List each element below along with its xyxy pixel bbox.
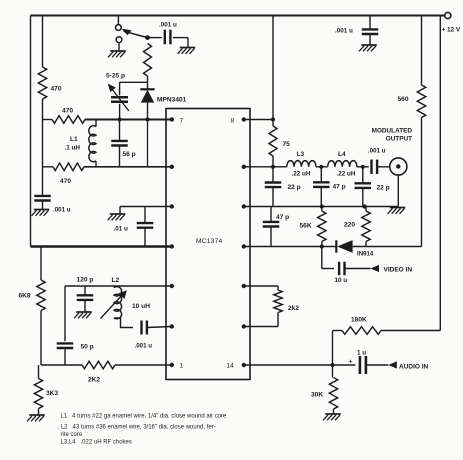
svg-text:+: + <box>349 359 353 366</box>
svg-text:2K2: 2K2 <box>88 377 100 384</box>
ground (top left cap) <box>178 48 196 54</box>
wire 180K right <box>381 330 440 332</box>
wire 120p/L2 top rail <box>65 285 172 287</box>
node audio junction <box>330 363 334 367</box>
node pin8/x273 junction <box>271 117 275 121</box>
resistor 560 <box>398 85 426 118</box>
svg-text:MPN3401: MPN3401 <box>157 97 187 104</box>
wire pin7 row left stub <box>43 119 53 121</box>
note L3L4 <box>61 440 132 446</box>
wire 470-chain mid <box>42 120 44 167</box>
wire pin1 rail left <box>41 364 65 366</box>
svg-text:+ 12 V: + 12 V <box>442 27 461 34</box>
capacitor .001u (L2 series) <box>135 321 172 350</box>
wire pin6 row left stub <box>43 166 54 168</box>
wire video drop <box>322 247 334 269</box>
diode MPN3401 (varactor) <box>140 82 186 119</box>
inductor L1 .1uH <box>65 120 97 167</box>
svg-text:MODULATED: MODULATED <box>372 128 413 135</box>
svg-text:.1 uH: .1 uH <box>65 145 81 152</box>
capacitor 10u (video coupling) <box>335 262 348 284</box>
resistor 470 (to pin 6) <box>53 163 84 185</box>
node IC right pin dots <box>242 117 246 367</box>
wire .01u ground stub <box>119 207 121 214</box>
ground (3K3) <box>27 415 45 421</box>
resistor 470 (osc divider top) <box>38 67 62 99</box>
svg-text:AUDIO IN: AUDIO IN <box>399 364 429 371</box>
resistor 30K <box>311 365 338 414</box>
ground (left .001u) <box>32 210 50 216</box>
node video junction <box>320 244 324 248</box>
wire cap-bottom rail <box>244 206 398 208</box>
wire diode to pin6 row <box>147 120 149 167</box>
resistor 75 <box>269 120 290 167</box>
svg-text:8: 8 <box>231 118 235 125</box>
resistor (osc feedback) <box>144 44 152 77</box>
capacitor 120p <box>77 277 94 312</box>
resistor 2K2 <box>82 361 115 383</box>
switch SPDT <box>116 25 148 43</box>
wire audio rail <box>244 364 356 366</box>
svg-text:10 uH: 10 uH <box>132 303 150 310</box>
capacitor 50p <box>57 286 94 365</box>
capacitor variable 5-25p <box>106 73 129 120</box>
node rail2 junction 56K <box>320 204 324 208</box>
wire switch junction to cap <box>148 37 163 39</box>
node junction varcap/pin7 <box>117 117 121 121</box>
svg-text:OUTPUT: OUTPUT <box>386 136 412 143</box>
capacitor 47p (tank mid) <box>313 167 346 207</box>
ground (supply bypass) <box>359 45 377 51</box>
svg-text:.001 u: .001 u <box>368 148 386 155</box>
wire x273 from top rail <box>272 16 274 120</box>
ground (output) <box>388 208 406 214</box>
capacitor .001u (osc top) <box>159 22 177 45</box>
svg-text:50 p: 50 p <box>81 344 94 351</box>
wire resistor to diode node <box>147 76 149 82</box>
wire 180K left drop <box>332 331 334 366</box>
resistor 56K <box>300 207 327 247</box>
ground (30K) <box>323 414 341 420</box>
node rail2 junction 220 <box>362 204 366 208</box>
IC U1 MC1374 modulator <box>166 109 250 380</box>
wire to output connector <box>378 166 390 168</box>
svg-text:22 p: 22 p <box>377 185 390 192</box>
svg-text:L2: L2 <box>112 277 120 284</box>
svg-text:3K3: 3K3 <box>46 390 58 397</box>
node 47p junction <box>319 165 323 169</box>
svg-text:L4: L4 <box>338 151 346 158</box>
svg-text:10 u: 10 u <box>335 277 348 284</box>
inductor L2 10uH (variable) <box>101 277 151 328</box>
node tank left junction <box>271 165 275 169</box>
wire top +12V supply rail <box>31 15 445 17</box>
pin 14 label <box>227 363 235 370</box>
svg-text:L1 4 turns #22 ga enamel wir: L1 4 turns #22 ga enamel wire, 1/4" dia.… <box>61 414 228 420</box>
svg-text:.001 u: .001 u <box>53 207 71 214</box>
wire audio to arrow <box>367 364 388 366</box>
ground (120p) <box>74 312 92 318</box>
wire pin1 rail mid <box>65 364 82 366</box>
terminal AUDIO IN <box>388 361 428 370</box>
wire 470 to junction <box>42 99 44 120</box>
resistor 2k2 (pins 9-10) <box>274 286 300 327</box>
svg-text:2k2: 2k2 <box>288 305 299 312</box>
svg-text:7: 7 <box>180 118 184 125</box>
svg-text:.22 uH: .22 uH <box>292 171 311 178</box>
wire pin8 stub <box>244 119 273 121</box>
svg-text:75: 75 <box>283 141 291 148</box>
wire pin5 rail <box>31 245 172 247</box>
svg-text:470: 470 <box>62 108 73 115</box>
svg-text:MC1374: MC1374 <box>196 238 223 245</box>
terminal VIDEO IN <box>371 265 413 274</box>
node switch junction <box>145 35 150 40</box>
capacitor .001u (output coupling) <box>368 148 386 175</box>
wire pin1 rail right <box>115 364 172 366</box>
svg-text:.001 u: .001 u <box>159 22 177 29</box>
svg-text:30K: 30K <box>311 392 323 399</box>
svg-text:470: 470 <box>60 178 71 185</box>
wire 180K left stub <box>333 330 343 332</box>
resistor 220 <box>344 207 370 247</box>
resistor 180K <box>342 317 381 335</box>
wire connector shell down <box>397 175 399 206</box>
svg-text:6K8: 6K8 <box>19 293 31 300</box>
svg-text:180K: 180K <box>351 317 367 324</box>
svg-text:VIDEO IN: VIDEO IN <box>384 267 413 274</box>
svg-text:5-25 p: 5-25 p <box>106 73 125 80</box>
wire 560 top <box>421 16 423 86</box>
wire 470-chain vertical top <box>42 16 44 68</box>
svg-text:22 p: 22 p <box>288 184 301 191</box>
svg-text:14: 14 <box>227 363 235 370</box>
capacitor 1u (audio coupling) <box>349 350 367 375</box>
svg-text:56K: 56K <box>300 223 312 230</box>
wire left rail down to pin5 row <box>30 16 32 247</box>
node 22p-2 junction <box>361 165 365 169</box>
inductor L4 .22uH <box>328 151 357 178</box>
wire 560 bottom <box>421 118 423 247</box>
wire varcap top link <box>120 81 148 83</box>
svg-text:IN914: IN914 <box>357 251 374 258</box>
resistor 470 (to pin 7) <box>52 108 85 124</box>
node junction diode/pin7 <box>145 117 149 121</box>
capacitor 22p (tank right) <box>355 167 390 207</box>
wire 470-chain bottom <box>42 167 44 196</box>
svg-text:L1: L1 <box>70 136 78 143</box>
resistor 3K3 <box>34 365 58 415</box>
svg-text:rite core: rite core <box>61 432 83 438</box>
node IC left pin dots <box>170 117 174 367</box>
svg-text:470: 470 <box>51 86 62 93</box>
svg-text:L3: L3 <box>297 151 305 158</box>
wire 2k2 top stub <box>244 285 278 287</box>
wire video to arrow <box>345 268 370 270</box>
wire tank seg2 <box>316 166 328 168</box>
note L2b <box>61 432 83 438</box>
capacitor 22p (tank left) <box>265 167 301 207</box>
note L2 <box>58 425 216 431</box>
wire pin7 row <box>85 119 172 121</box>
pin 1 label <box>180 363 184 370</box>
ground (switch throw) <box>108 43 126 58</box>
pin 8 label <box>231 118 235 125</box>
svg-text:. L2 43 turns #36 enamel wir: . L2 43 turns #36 enamel wire, 3/16" dia… <box>58 425 216 431</box>
wire tank seg3 <box>357 166 369 168</box>
svg-text:56 p: 56 p <box>123 151 136 158</box>
ground (.01u) <box>108 214 126 220</box>
wire pin (tank) stub <box>244 166 273 168</box>
wire +12V right drop <box>439 16 441 331</box>
wire video rail left <box>244 246 336 248</box>
svg-text:.01 u: .01 u <box>114 226 129 233</box>
svg-text:.001 u: .001 u <box>135 343 153 350</box>
wire pin6 row <box>84 166 172 168</box>
pin 7 label <box>180 118 184 125</box>
svg-text:.001 u: .001 u <box>335 28 353 35</box>
svg-text:1: 1 <box>180 363 184 370</box>
svg-text:220: 220 <box>344 222 355 229</box>
svg-text:560: 560 <box>398 96 409 103</box>
svg-text:47 p: 47 p <box>276 214 289 221</box>
svg-text:1 u: 1 u <box>357 350 366 357</box>
wire tank seg1 <box>273 166 287 168</box>
capacitor .01u <box>114 207 154 247</box>
wire cap to ground stub <box>173 38 188 47</box>
svg-text:.22 uH: .22 uH <box>337 171 356 178</box>
capacitor 47p (to video rail) <box>263 207 289 247</box>
resistor 6K8 <box>19 247 46 366</box>
terminal +12V <box>442 12 461 33</box>
svg-text:120 p: 120 p <box>77 277 94 284</box>
connector MODULATED OUTPUT <box>372 128 413 176</box>
capacitor .001u (supply bypass) <box>335 16 378 45</box>
svg-text:L3,L4 .022 uH RF chokes: L3,L4 .022 uH RF chokes <box>61 440 132 446</box>
wire video rail right <box>353 246 422 248</box>
diode IN914 <box>336 240 374 257</box>
switch pole stem <box>117 16 119 25</box>
wire 2k2 bottom stub <box>244 326 278 328</box>
note L1 <box>61 414 228 420</box>
wire pin (.01u) row <box>120 206 172 208</box>
inductor L3 .22uH <box>287 151 316 178</box>
capacitor 56p <box>111 120 135 167</box>
svg-text:47 p: 47 p <box>333 184 346 191</box>
capacitor .001u (osc bypass left) <box>34 196 71 214</box>
